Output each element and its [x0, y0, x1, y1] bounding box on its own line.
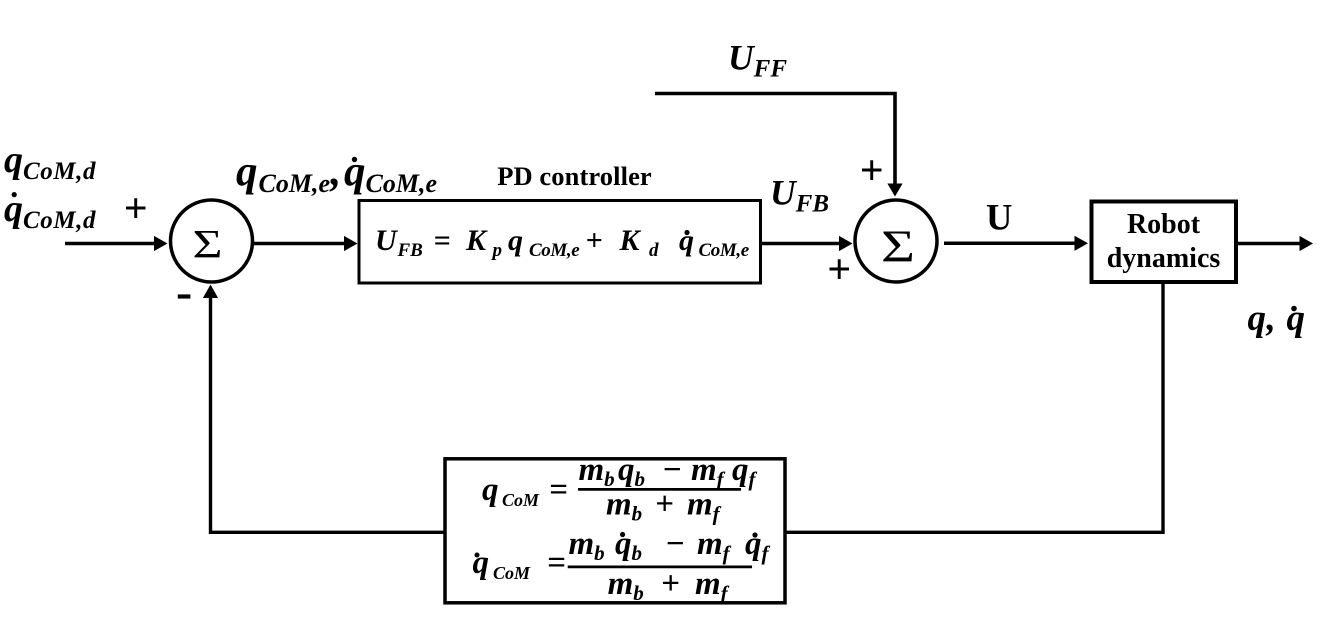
- svg-text:U: U: [986, 197, 1012, 238]
- svg-text:qCoM=: qCoM=: [482, 472, 568, 510]
- svg-text:Σ: Σ: [881, 222, 915, 272]
- block CoM computation box: [445, 459, 785, 603]
- block Robot dynamics box: [1092, 202, 1237, 283]
- wire PD box to summing junction S2: [762, 236, 853, 251]
- label q_CoM,d desired input line 1: [4, 139, 96, 185]
- svg-text:mbqb−mfqf: mbqb−mfqf: [569, 526, 771, 565]
- svg-text:Robot: Robot: [1127, 209, 1201, 240]
- svg-text:mb+mf: mb+mf: [608, 566, 730, 605]
- label q_CoM,e , qdot_CoM,e error signal: [236, 148, 437, 198]
- svg-text:dynamics: dynamics: [1107, 243, 1221, 274]
- summing junction S1: [171, 200, 253, 282]
- summing junction S2: [855, 200, 937, 282]
- svg-text:qCoM,e,qCoM,e: qCoM,e,qCoM,e: [236, 148, 437, 198]
- wire input arrow into S1: [65, 236, 168, 251]
- svg-text:UFF: UFF: [728, 38, 787, 83]
- svg-text:UFB: UFB: [770, 173, 829, 218]
- wire output arrow from Robot dynamics: [1238, 236, 1313, 251]
- svg-text:PD controller: PD controller: [497, 161, 652, 191]
- equation qdot_CoM = (m_b qdot_b - m_f qdot_f)/(m_b + m_f): [473, 526, 771, 605]
- svg-text:+: +: [827, 247, 851, 293]
- svg-text:q,q: q,q: [1248, 298, 1306, 339]
- svg-text:qCoM,d: qCoM,d: [4, 188, 96, 234]
- label Robot dynamics: [1107, 209, 1221, 274]
- wire S1 to PD controller box: [253, 236, 358, 251]
- label q, qdot output: [1248, 298, 1306, 339]
- wire U_FF feedforward into S2: [655, 94, 903, 197]
- block PD controller box: [359, 201, 761, 284]
- svg-text:+: +: [124, 186, 148, 232]
- svg-text:UFB=KpqCoM,e+KdqCoM,e: UFB=KpqCoM,e+KdqCoM,e: [375, 224, 750, 261]
- wire feedback from CoM box left and up into S1: [203, 285, 445, 533]
- svg-text:qCoM=: qCoM=: [473, 545, 566, 583]
- svg-text:Σ: Σ: [193, 222, 223, 267]
- wire S2 to Robot dynamics box: [944, 236, 1088, 251]
- wire feedback from Robot dynamics down and left to CoM box: [785, 283, 1163, 532]
- label qdot_CoM,d desired input line 2: [4, 188, 96, 234]
- equation U_FB = K_p q_CoM,e + K_d qdot_CoM,e: [375, 224, 750, 261]
- minus sign at S1 feedback input: [178, 294, 191, 298]
- svg-text:qCoM,d: qCoM,d: [4, 139, 96, 185]
- svg-text:+: +: [860, 148, 884, 194]
- equation q_CoM = (m_b q_b - m_f q_f)/(m_b + m_f): [482, 452, 758, 526]
- svg-text:mb+mf: mb+mf: [606, 487, 722, 526]
